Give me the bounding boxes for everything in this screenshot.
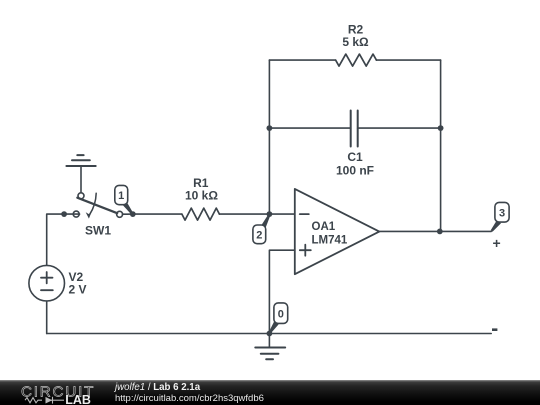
wire: op-amp plus input to ground rail [269,250,294,333]
CircuitLab logo [0,380,110,405]
resistor R1 [182,208,220,220]
wire: feedback right vertical down to output [440,60,442,231]
wire: V2 bottom to ground rail [46,301,48,334]
svg-text:1: 1 [118,190,124,202]
svg-text:3: 3 [499,208,505,220]
svg-text:10 kΩ: 10 kΩ [185,189,218,203]
wire: feedback top right [376,59,440,61]
output minus marker [492,328,497,331]
wire: V2 top to switch left terminal [47,214,80,265]
junction dot cap right [438,125,444,131]
switch SW1 [73,193,122,219]
svg-text:SW1: SW1 [85,223,111,237]
svg-text:2 V: 2 V [69,282,87,296]
capacitor C1 [351,111,358,147]
ground (bottom) [268,334,270,348]
node 0 leader [269,321,279,333]
svg-text:0: 0 [278,309,284,321]
wire: feedback left vertical (node 2 up to R2) [268,60,270,214]
junction dot node 2 [267,211,273,217]
junction dot node 0 [267,331,273,337]
svg-text:LM741: LM741 [312,234,348,246]
node 3 [495,202,509,222]
node 1 [115,185,128,204]
svg-text:5 kΩ: 5 kΩ [342,35,369,49]
wire: SW1 to R1 [123,213,182,215]
svg-text:2: 2 [256,229,262,241]
node 2 [253,225,266,244]
wire: cap row left [269,127,350,129]
svg-text:100 nF: 100 nF [336,164,374,178]
junction dot node 1 [130,211,136,217]
wire: R1 to op-amp minus input (through node 2) [219,213,294,215]
op-amp plus symbol [300,245,311,256]
svg-text:+: + [493,235,501,251]
wire: feedback top left [269,59,335,61]
ground (top, above SW1, inverted) [66,155,95,166]
footer bar [0,380,540,405]
node 1 leader [123,202,133,214]
svg-text:OA1: OA1 [312,221,336,233]
wire: ground stub down to switch throw [80,166,82,193]
junction dot cap left [267,125,273,131]
wire: op-amp output [379,230,491,232]
node 3 leader [491,220,501,232]
resistor R2 [336,54,377,66]
junction dot output [437,229,443,235]
wire: bottom ground rail [47,333,492,335]
svg-text:LAB: LAB [65,393,91,405]
wire: cap row right [358,127,441,129]
svg-text:C1: C1 [347,150,363,164]
source V2 [29,265,65,301]
op-amp minus symbol [300,213,309,215]
junction dot left of SW1 [61,211,67,217]
op-amp OA1 [295,189,380,274]
node 2 leader [261,215,270,228]
node 0 [274,303,288,324]
